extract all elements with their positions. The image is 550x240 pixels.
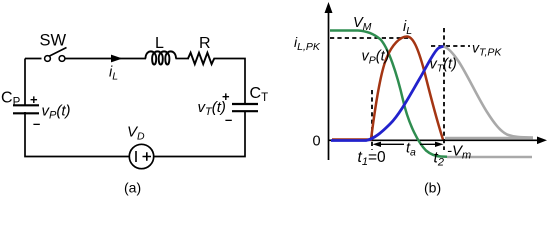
svg-text:CP: CP [1,90,21,109]
x-axis [329,139,542,141]
dashed line iL,PK [330,37,409,39]
dashed line t2 [443,28,445,150]
VD internal minus bar [135,151,137,162]
svg-text:(a): (a) [124,180,141,196]
ta arrowhead left [373,142,382,147]
resistor R [188,53,214,64]
svg-text:iL: iL [109,65,118,83]
svg-text:R: R [199,35,211,52]
svg-text:iL,PK: iL,PK [294,34,321,53]
current arrow iL [111,55,123,63]
gray -Vm line [447,156,532,159]
switch SW contact right [59,56,65,62]
curve vP green [330,31,447,157]
inductor L [146,51,176,64]
svg-text:SW: SW [40,32,67,50]
dashed line t1 [371,90,373,150]
svg-text:t2: t2 [434,150,444,169]
svg-text:L: L [155,35,164,52]
svg-text:t1=0: t1=0 [358,149,386,168]
svg-text:vT,PK: vT,PK [472,40,502,59]
curve vT blue [331,47,444,141]
curve iL red [332,37,443,140]
svg-text:-Vm: -Vm [447,143,471,162]
svg-text:–: – [225,112,232,127]
svg-text:(b): (b) [424,180,441,196]
dashed line VT,PK [431,45,470,47]
voltage source VD circle [129,144,153,168]
svg-text:vP(t): vP(t) [42,103,71,122]
wire top-left horizontal [25,58,42,60]
wire right-bottom [154,111,245,156]
svg-text:ta: ta [406,141,416,159]
svg-text:–: – [33,116,40,131]
x-axis arrowhead [537,137,547,145]
switch SW lever [50,48,67,57]
switch SW contact left [45,56,51,62]
gray vT tail curve [444,47,534,138]
gray zero line after t2 [445,137,533,140]
wire bottom-left [25,112,129,157]
svg-text:vT(t): vT(t) [430,57,457,75]
y-axis arrowhead [325,2,333,13]
ta arrowhead right [435,142,444,147]
svg-text:iL: iL [403,19,412,37]
svg-text:vP(t): vP(t) [362,49,390,67]
capacitor CT plates [232,104,258,111]
wire top middle [65,58,146,60]
svg-text:VD: VD [127,124,145,143]
ta double arrow left segment [375,143,404,145]
svg-text:0: 0 [313,134,321,150]
wire top-right [214,59,246,104]
svg-text:VM: VM [353,15,372,33]
svg-text:vT(t): vT(t) [198,99,226,118]
svg-text:CT: CT [250,85,269,104]
ta double arrow right segment [420,143,441,145]
capacitor CP plates [13,105,39,113]
wire between L and R [176,58,190,60]
y-axis [328,9,330,160]
VD internal plus [143,152,152,160]
svg-text:+: + [30,92,38,107]
wire left vertical upper [24,59,26,106]
